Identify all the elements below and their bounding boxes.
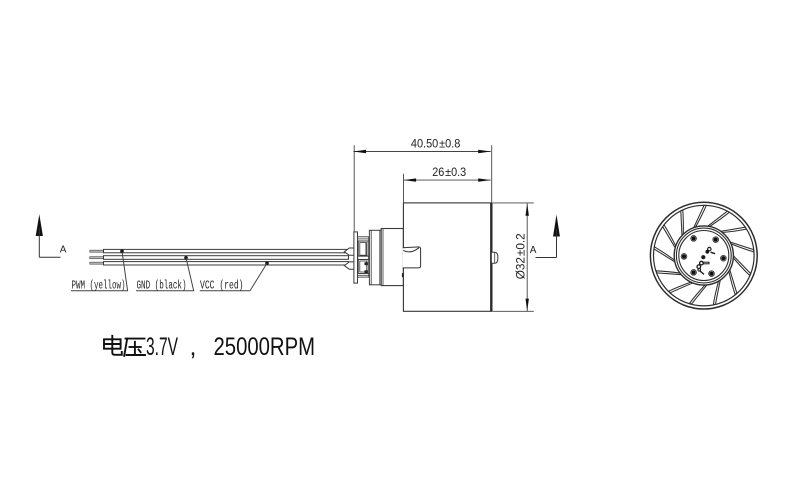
leader dot PWM xyxy=(120,250,124,254)
crimp terminal upper xyxy=(344,248,355,255)
fan blade 7 xyxy=(689,284,707,304)
svg-text:26 ±0.3: 26 ±0.3 xyxy=(432,167,466,179)
hub screw hole 3 xyxy=(691,270,697,276)
wire bare stub VCC xyxy=(90,262,104,264)
svg-text:,: , xyxy=(190,333,197,361)
fan outer rim xyxy=(650,202,757,309)
hub screw hole 2 xyxy=(709,271,715,277)
fan blade 1 xyxy=(707,211,729,227)
connector mid bar xyxy=(358,256,369,259)
motor body xyxy=(403,203,491,311)
solder tick on body edge xyxy=(402,273,404,277)
spec text latin part xyxy=(146,333,315,361)
svg-text:VCC (red): VCC (red) xyxy=(200,280,244,293)
svg-text:GND (black): GND (black) xyxy=(137,280,187,293)
fan blade 3 xyxy=(730,242,754,252)
fan blade 13 xyxy=(694,205,707,228)
wire PWM yellow (top) xyxy=(104,249,349,252)
fan blade 5 xyxy=(729,269,737,295)
gearbox block xyxy=(369,230,381,284)
connector upper box xyxy=(358,241,368,256)
fan blade 9 xyxy=(656,271,682,275)
wire VCC red (bottom) xyxy=(104,262,349,265)
body notch with retaining tab xyxy=(403,247,421,268)
fan blade 2 xyxy=(720,227,746,232)
connector bottom cap xyxy=(358,274,369,278)
spec text: 电压3.7V, 25000RPM xyxy=(104,336,145,356)
leader dot GND xyxy=(184,256,188,260)
section arrow A right xyxy=(530,215,560,258)
dimension 40.50 +/-0.8 xyxy=(353,138,491,232)
shaft end cap xyxy=(492,252,498,263)
dimension diameter 32 +/-0.2 xyxy=(492,203,533,311)
front housing xyxy=(381,229,403,286)
hub center detail screw and wire xyxy=(697,247,715,274)
section arrow A left xyxy=(36,214,67,257)
leader line GND xyxy=(136,258,194,291)
svg-text:40.50 ±0.8: 40.50 ±0.8 xyxy=(411,138,461,150)
hub screw hole 4 xyxy=(681,254,687,260)
leader line VCC xyxy=(200,263,267,291)
wire bare stub GND xyxy=(90,257,104,259)
connector lower box xyxy=(358,260,368,274)
svg-text:Ø32 ±0.2: Ø32 ±0.2 xyxy=(516,233,528,279)
leader dot VCC xyxy=(265,261,269,265)
fan blade 11 xyxy=(663,225,676,249)
leader line PWM xyxy=(71,251,128,290)
fan blade 8 xyxy=(669,282,694,293)
svg-text:25000RPM: 25000RPM xyxy=(214,333,316,361)
hub screw hole 6 xyxy=(713,237,719,243)
front flange plate xyxy=(354,232,358,283)
wire bare stub PWM xyxy=(90,250,104,252)
hub screw hole 5 xyxy=(691,236,697,242)
svg-text:A: A xyxy=(60,245,67,256)
hanzi YA xyxy=(124,339,145,356)
hub screw hole 1 xyxy=(721,255,727,261)
crimp terminal lower xyxy=(344,262,355,269)
fan blade 10 xyxy=(654,247,675,262)
svg-text:PWM (yellow): PWM (yellow) xyxy=(72,280,126,293)
dimension 26 +/-0.3 xyxy=(404,167,491,202)
fan blade 6 xyxy=(713,280,720,305)
svg-text:3.7V: 3.7V xyxy=(146,333,178,361)
wire GND black (middle) xyxy=(104,256,349,260)
fan blade 4 xyxy=(733,255,751,275)
fan blade 12 xyxy=(681,210,684,236)
connector top cap xyxy=(358,237,369,241)
svg-text:A: A xyxy=(530,245,537,256)
hanzi DIAN xyxy=(104,336,122,355)
fan hub xyxy=(674,226,733,285)
